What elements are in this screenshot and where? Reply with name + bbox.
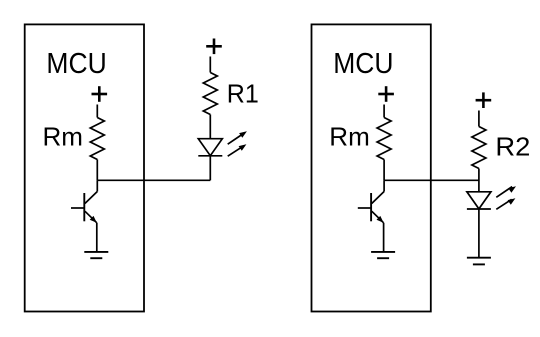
- svg-text:R2: R2: [495, 131, 530, 161]
- svg-text:MCU: MCU: [333, 48, 393, 80]
- svg-text:Rm: Rm: [43, 122, 84, 152]
- svg-text:MCU: MCU: [46, 48, 106, 80]
- svg-text:R1: R1: [227, 79, 259, 109]
- svg-text:Rm: Rm: [329, 122, 370, 152]
